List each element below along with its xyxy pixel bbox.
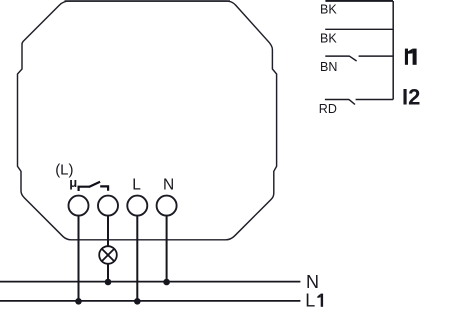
svg-text:BN: BN xyxy=(320,60,337,74)
svg-text:BK: BK xyxy=(320,31,337,45)
svg-text:RD: RD xyxy=(319,102,337,116)
svg-text:N: N xyxy=(163,177,174,194)
svg-text:N: N xyxy=(306,272,319,292)
svg-text:μ: μ xyxy=(69,175,77,190)
svg-text:L: L xyxy=(132,177,141,194)
svg-text:L: L xyxy=(305,291,315,311)
svg-text:BK: BK xyxy=(320,3,337,17)
svg-text:I2: I2 xyxy=(402,84,420,109)
